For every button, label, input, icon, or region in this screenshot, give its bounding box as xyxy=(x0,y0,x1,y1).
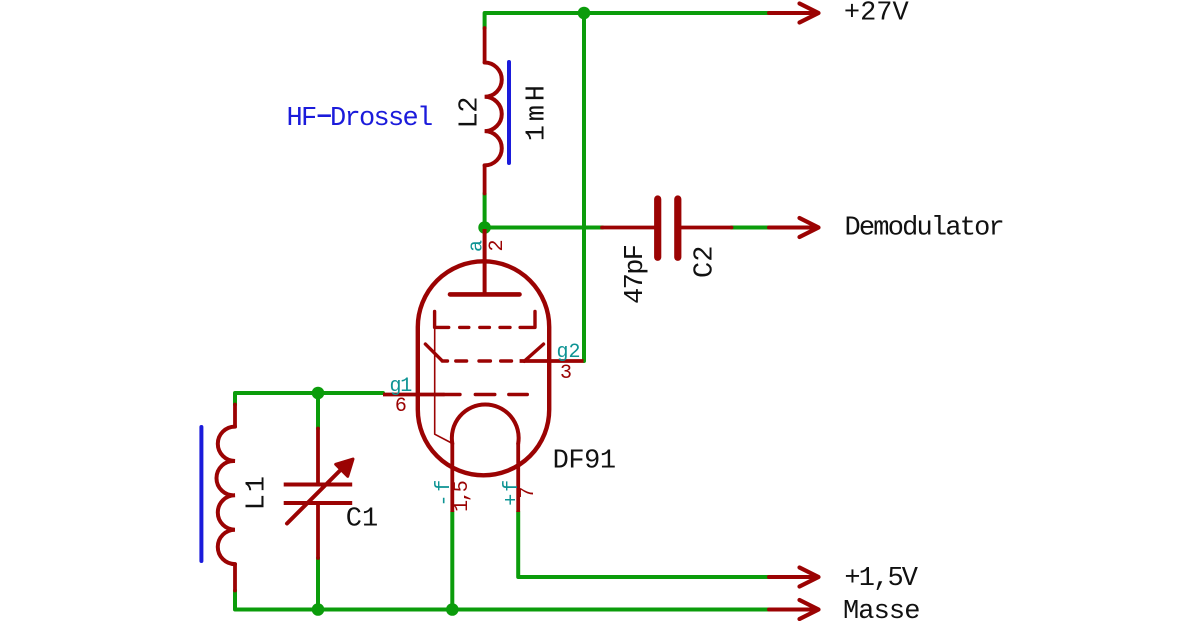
pin name +f xyxy=(501,478,524,506)
label +1,5V xyxy=(844,564,918,594)
svg-text:47pF: 47pF xyxy=(621,245,651,304)
tube g2 pin 3 lead xyxy=(520,359,584,363)
label Masse xyxy=(843,597,920,621)
svg-text:L2: L2 xyxy=(455,97,485,128)
label L2 xyxy=(455,97,485,128)
tube anode plate xyxy=(450,292,520,297)
wire -f filament to Masse rail xyxy=(450,512,454,610)
svg-text:g2: g2 xyxy=(557,341,581,364)
pin number 2 xyxy=(486,239,509,251)
wire vertical from +27V net down to g2 xyxy=(582,13,586,361)
inductor L1 xyxy=(216,405,235,591)
junction dot at -f on Masse rail xyxy=(446,603,459,616)
svg-text:6: 6 xyxy=(395,395,407,418)
svg-text:+1,5V: +1,5V xyxy=(844,564,918,594)
tube grid g2 row xyxy=(425,344,543,361)
tube filament +f lead pin 7 xyxy=(516,443,520,512)
svg-text:3: 3 xyxy=(560,362,572,385)
inductor L2 xyxy=(485,28,502,194)
svg-text:2: 2 xyxy=(486,239,509,251)
inductor L2 core bar xyxy=(507,62,511,163)
tube filament -f lead pins 1,5 xyxy=(450,443,454,512)
arrow port Demodulator xyxy=(769,218,819,237)
junction dot at C1 top xyxy=(312,387,325,400)
junction dot at anode node xyxy=(478,221,491,234)
pin name -f xyxy=(433,477,456,507)
tube anode lead pin 2 xyxy=(483,229,487,294)
label C1 xyxy=(346,505,378,535)
wire Masse bottom rail xyxy=(235,591,769,610)
junction dot at C1 bottom xyxy=(312,603,325,616)
pin name a xyxy=(466,240,489,252)
arrow port +27V xyxy=(769,4,819,23)
svg-text:DF91: DF91 xyxy=(553,447,616,477)
wire tank top: L1 top to g1 xyxy=(235,393,383,405)
wire C2 right to Demodulator arrow xyxy=(732,226,770,230)
capacitor C2 xyxy=(602,199,732,257)
wire anode node to C2 left xyxy=(485,226,603,230)
label Demodulator xyxy=(845,214,1003,244)
pin number 6 xyxy=(395,395,407,418)
value 47pF xyxy=(621,245,651,304)
pin name g1 xyxy=(390,375,413,398)
svg-text:Demodulator: Demodulator xyxy=(845,214,1003,244)
tube filament arc xyxy=(452,405,519,444)
variable capacitor C1 xyxy=(284,429,353,559)
tube g3 internal connection to filament xyxy=(435,327,451,442)
tube grid g3 row xyxy=(435,312,535,328)
label DF91 xyxy=(553,447,616,477)
svg-text:+27V: +27V xyxy=(844,0,910,29)
tube grid g1 row xyxy=(445,393,528,396)
value 1mH xyxy=(523,81,553,141)
wire +f filament to +1,5V arrow xyxy=(518,512,769,577)
svg-text:Masse: Masse xyxy=(843,597,920,621)
svg-text:1,5: 1,5 xyxy=(451,481,474,512)
wire L2 bottom to anode node xyxy=(483,194,487,229)
tube U1 envelope xyxy=(418,261,549,475)
svg-text:C2: C2 xyxy=(691,246,721,278)
wire C1 bottom stub xyxy=(316,558,320,610)
svg-text:C1: C1 xyxy=(346,505,378,535)
pin number 1,5 xyxy=(451,481,474,512)
inductor L1 core bar xyxy=(199,427,203,561)
comment text HF-Drossel xyxy=(287,104,433,134)
svg-text:7: 7 xyxy=(517,486,540,498)
pin number 7 xyxy=(517,486,540,498)
label L1 xyxy=(243,474,273,510)
label C2 xyxy=(691,246,721,278)
svg-text:1mH: 1mH xyxy=(523,81,553,141)
wire C1 top stub xyxy=(316,393,320,429)
arrow port Masse xyxy=(769,600,819,619)
svg-text:HF Drossel: HF Drossel xyxy=(287,104,433,134)
arrow port +1,5V xyxy=(769,568,819,587)
pin number 3 xyxy=(560,362,572,385)
wire +27V horizontal from L2 top to arrow xyxy=(485,13,769,29)
label +27V xyxy=(844,0,910,29)
svg-text:L1: L1 xyxy=(243,474,273,510)
junction dot at +27V wire xyxy=(578,7,591,20)
pin name g2 xyxy=(557,341,581,364)
tube g1 pin 6 lead xyxy=(383,393,445,397)
